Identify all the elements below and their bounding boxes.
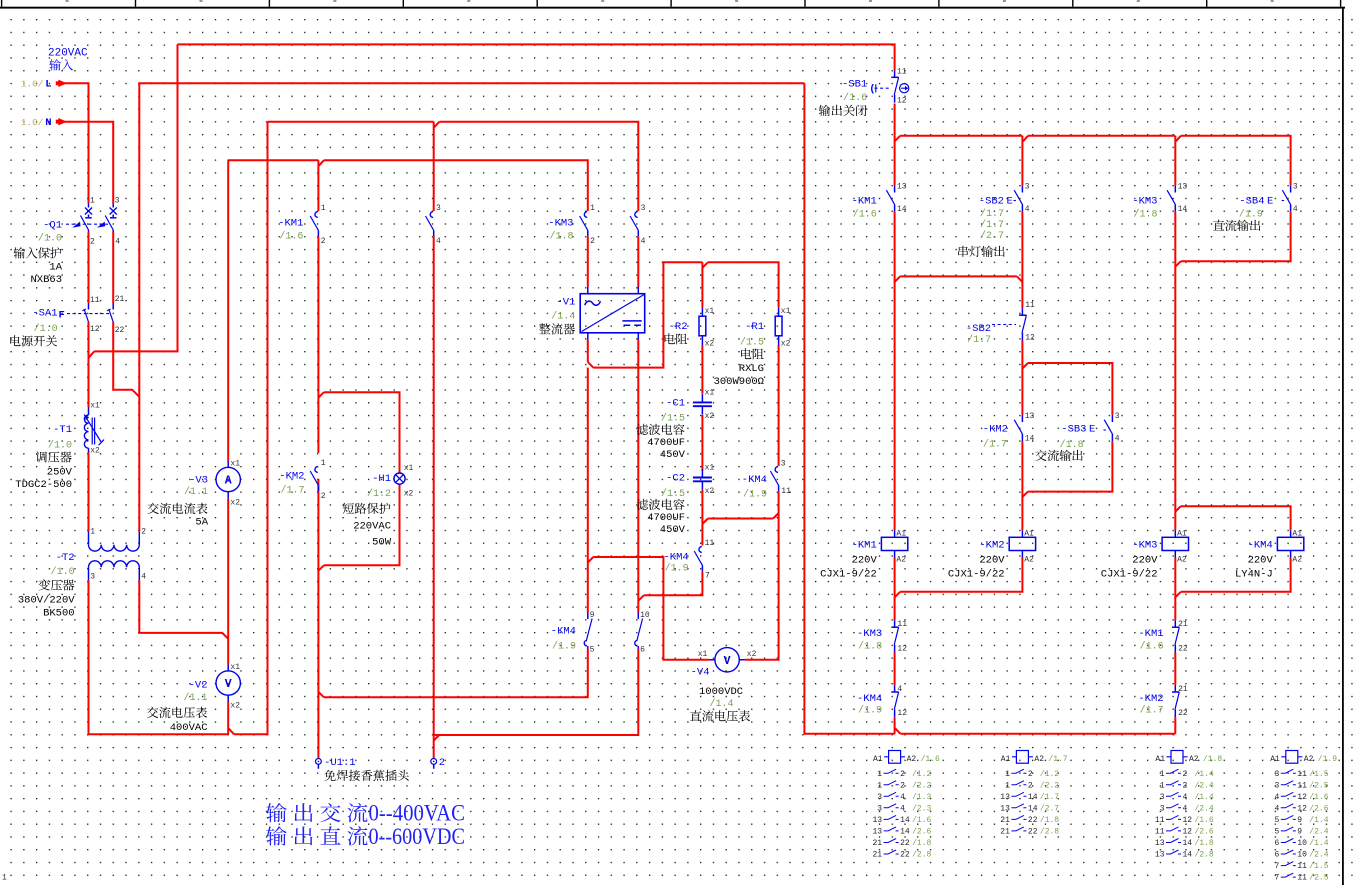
svg-text:4: 4	[641, 237, 646, 246]
junction chamfer V2-x2 at bottom rail	[229, 729, 234, 735]
svg-text:3: 3	[1274, 770, 1279, 779]
svg-text:2: 2	[1183, 781, 1188, 790]
svg-text:-V3: -V3	[189, 475, 208, 487]
svg-text:-C2: -C2	[666, 473, 685, 485]
svg-text:50W: 50W	[372, 537, 392, 549]
junction chamfer rail y557	[588, 557, 594, 563]
mirror table KM4	[1286, 751, 1298, 764]
capacitor C2	[701, 469, 703, 490]
svg-text:/1.7: /1.7	[967, 334, 991, 346]
contact SB4 3-4	[1290, 185, 1292, 192]
svg-text:12: 12	[897, 709, 907, 718]
relay KM4 contact 9-5	[587, 613, 589, 620]
switch SA1 actuator dashes	[67, 313, 109, 315]
svg-text:21: 21	[1000, 828, 1010, 837]
wire R2 feed	[701, 262, 703, 307]
svg-text:1: 1	[321, 459, 326, 468]
svg-text:A1: A1	[1177, 529, 1187, 538]
wire lamp loop top	[324, 392, 400, 473]
wire R1-x2 to KM4-3	[778, 346, 780, 467]
svg-text:4: 4	[141, 573, 146, 582]
breaker Q1 pole 1-2	[88, 204, 90, 208]
wire rail y160 left of KM1-1 tap	[228, 159, 318, 161]
svg-text:13: 13	[1025, 412, 1035, 421]
svg-text:/1.6: /1.6	[1140, 640, 1164, 652]
mirror table KM3	[1171, 751, 1183, 764]
svg-text:14: 14	[1028, 793, 1038, 802]
svg-text:1.0/: 1.0/	[21, 79, 44, 90]
svg-text:/1.1: /1.1	[184, 486, 208, 498]
wire KM3 coil A2 down	[1174, 558, 1176, 621]
svg-text:/1.8: /1.8	[858, 640, 882, 652]
svg-text:/2.5: /2.5	[1309, 781, 1328, 790]
svg-text:13: 13	[872, 828, 882, 837]
coil KM3	[1174, 530, 1176, 557]
svg-text:/1.1: /1.1	[183, 692, 207, 704]
wire DC+ to KM4-9	[587, 368, 589, 613]
svg-text:/2.6: /2.6	[1195, 828, 1214, 837]
wire KM3-2 to V1-AC1	[587, 236, 589, 286]
svg-text:/2.4: /2.4	[1309, 851, 1328, 860]
svg-text:/1.8: /1.8	[549, 231, 573, 243]
svg-text:13: 13	[1178, 182, 1188, 191]
svg-text:x1: x1	[781, 307, 791, 316]
svg-text:250V: 250V	[47, 467, 73, 479]
wire V2-x2 drop	[227, 702, 229, 735]
transformer T2 secondary winding	[88, 567, 90, 580]
svg-text:0--600VDC: 0--600VDC	[369, 824, 466, 849]
svg-text:/1.4: /1.4	[1195, 793, 1214, 802]
junction chamfer NC chain at bottom rail	[895, 728, 900, 734]
wire rail y506 to KM4 coil	[1181, 506, 1291, 530]
svg-text:-KM2: -KM2	[983, 424, 1008, 436]
svg-text:/1.5: /1.5	[661, 488, 685, 500]
wire KM3NC-12 to KM4NC-4	[894, 653, 896, 686]
svg-text:-KM2: -KM2	[279, 471, 304, 483]
svg-text:220V: 220V	[1132, 555, 1158, 567]
wire ctrl rail y135 seg2	[1028, 135, 1175, 137]
svg-text:4: 4	[1183, 804, 1188, 813]
junction chamfer A2 rail KM3	[1175, 592, 1181, 598]
wire rail y557 to V4-x1	[593, 557, 709, 660]
svg-text:/1.7: /1.7	[1140, 704, 1164, 716]
contactor KM2 main pole 1-2	[315, 467, 318, 473]
svg-text:/1.9: /1.9	[1318, 755, 1337, 764]
wire rail y160 to KM3-1	[324, 160, 588, 211]
wire KM1NC-22 to KM2NC-21	[1174, 653, 1176, 686]
svg-text:3: 3	[877, 804, 882, 813]
svg-text:A2: A2	[1189, 755, 1199, 764]
svg-text:-KM2: -KM2	[979, 540, 1004, 552]
svg-text:3: 3	[1025, 182, 1030, 191]
wire DC- rail y697 to KM4-5	[324, 649, 588, 698]
svg-text:A1: A1	[1292, 529, 1302, 538]
voltmeter V4	[709, 659, 745, 661]
svg-text:3: 3	[877, 793, 882, 802]
svg-text:x2: x2	[705, 487, 715, 496]
junction chamfer KM1-1 tap	[319, 160, 324, 166]
svg-text:NXB63: NXB63	[30, 274, 62, 286]
wire R2-x2 to C1-x1	[701, 346, 703, 394]
wire KM4-11 to V4-x2	[745, 491, 779, 660]
svg-text:/1.8: /1.8	[1060, 439, 1084, 451]
label banana plug	[324, 770, 335, 781]
svg-text:11: 11	[705, 539, 715, 548]
svg-text:-R2: -R2	[669, 321, 688, 333]
capacitor C1	[701, 394, 703, 415]
svg-text:1: 1	[2, 874, 7, 883]
svg-text:11: 11	[90, 296, 100, 305]
svg-text:/1.9: /1.9	[665, 563, 689, 575]
svg-text:x2: x2	[781, 339, 791, 348]
svg-text:E: E	[1267, 196, 1273, 208]
wire T2-4 to V2-x1 jog	[139, 580, 228, 639]
svg-text:/1.2: /1.2	[1040, 770, 1059, 779]
svg-text:A2: A2	[896, 555, 906, 564]
svg-text:2: 2	[900, 781, 905, 790]
junction chamfer rail y595	[638, 595, 644, 601]
svg-text:2: 2	[1028, 770, 1033, 779]
junction chamfer KM4 coil rail	[1175, 506, 1181, 512]
svg-text:22: 22	[1178, 709, 1188, 718]
svg-text:/1.8: /1.8	[1203, 755, 1222, 764]
svg-text:-C1: -C1	[666, 398, 685, 410]
svg-text:3: 3	[1115, 412, 1120, 421]
wire rail y595 to KM4-7 col	[644, 571, 703, 595]
junction chamfer ctrl rail at SB2 col	[1023, 136, 1028, 142]
contact KM1 aux 13-14	[894, 185, 896, 192]
transformer T2 primary winding	[88, 531, 90, 545]
svg-text:x1: x1	[230, 459, 240, 468]
svg-text:4700UF: 4700UF	[647, 437, 685, 449]
wire lamp loop bottom	[324, 484, 400, 565]
wire SB3 loop top	[1028, 363, 1113, 415]
svg-text:2: 2	[1183, 770, 1188, 779]
svg-text:5: 5	[590, 646, 595, 655]
svg-text:x1: x1	[698, 650, 708, 659]
svg-text:-SB2: -SB2	[966, 323, 991, 335]
svg-text:/1.4: /1.4	[551, 311, 575, 323]
svg-text:A1: A1	[873, 755, 883, 764]
svg-text:-KM2: -KM2	[1138, 693, 1163, 705]
mirror table KM1	[889, 751, 901, 764]
svg-text:/2.3: /2.3	[912, 804, 931, 813]
svg-text:9: 9	[1297, 828, 1302, 837]
lamp H1	[399, 473, 401, 484]
wire KM1-2 down to lamp loop	[317, 236, 319, 392]
junction chamfer ctrl rail at KM3 col	[1176, 136, 1181, 142]
svg-text:14: 14	[1178, 205, 1188, 214]
svg-text:6: 6	[640, 646, 645, 655]
svg-text:4: 4	[897, 685, 902, 694]
svg-text:7: 7	[705, 572, 710, 581]
svg-text:E: E	[1007, 196, 1013, 208]
svg-text:/1.0: /1.0	[51, 566, 75, 578]
svg-text:-KM1: -KM1	[278, 218, 303, 230]
junction chamfer hold rail left	[895, 276, 901, 282]
svg-text:A2: A2	[907, 755, 917, 764]
svg-text:220V: 220V	[852, 555, 878, 567]
svg-text:/2.8: /2.8	[1040, 828, 1059, 837]
wire N ctrl riser x804	[804, 83, 894, 734]
svg-text:14: 14	[900, 816, 910, 825]
svg-text:N: N	[45, 117, 51, 129]
svg-text:/1.6: /1.6	[1309, 793, 1328, 802]
svg-text:12: 12	[90, 325, 100, 334]
svg-text:CJX1-9/22: CJX1-9/22	[1101, 569, 1158, 581]
svg-text:2: 2	[321, 237, 326, 246]
svg-text:/1.7: /1.7	[980, 219, 1004, 231]
svg-text:/1.3: /1.3	[912, 793, 931, 802]
breaker Q1 linkage dashes	[66, 223, 108, 225]
svg-text:/1.6: /1.6	[912, 816, 931, 825]
sheet right border line	[1342, 7, 1344, 885]
svg-text:-SB2: -SB2	[979, 196, 1004, 208]
svg-text:/2.4: /2.4	[1195, 804, 1214, 813]
svg-text:22: 22	[1028, 828, 1038, 837]
junction chamfer lamp loop top	[318, 392, 324, 398]
svg-text:A1: A1	[1270, 755, 1280, 764]
svg-text:11: 11	[1155, 828, 1165, 837]
switch SA1 pole 11-12	[88, 303, 90, 310]
svg-text:/1.5: /1.5	[740, 337, 764, 349]
svg-text:22: 22	[1028, 816, 1038, 825]
svg-text:1: 1	[90, 527, 95, 536]
wire KM2aux-14 to coil KM2	[1021, 441, 1023, 530]
svg-text:1: 1	[877, 770, 882, 779]
contact KM2 aux 13-14	[1021, 415, 1023, 422]
svg-text:x1: x1	[705, 464, 715, 473]
mirror table KM2	[1016, 751, 1028, 764]
coil KM4	[1290, 530, 1292, 557]
contact KM1 NC 21-22	[1174, 620, 1176, 626]
svg-text:11: 11	[897, 620, 907, 629]
junction chamfer mid-cap rail left	[702, 519, 708, 525]
svg-text:4: 4	[1274, 793, 1279, 802]
svg-text:1: 1	[90, 196, 95, 205]
svg-text:A1: A1	[1001, 755, 1011, 764]
wire A2 rail KM3-KM4	[1181, 558, 1291, 592]
sheet column ruler ticks	[1, 0, 2, 7]
svg-text:220V: 220V	[1248, 555, 1274, 567]
svg-text:3: 3	[641, 204, 646, 213]
svg-text:/2.7: /2.7	[980, 230, 1004, 242]
svg-text:13: 13	[872, 816, 882, 825]
svg-text:14: 14	[1028, 804, 1038, 813]
svg-text:13: 13	[1155, 839, 1165, 848]
svg-text:450V: 450V	[660, 449, 686, 461]
svg-text:-U1:1: -U1:1	[324, 757, 356, 769]
wire C1-x2 to C2-x1	[701, 415, 703, 471]
svg-text:/1.0: /1.0	[34, 323, 58, 335]
svg-text:BK500: BK500	[43, 608, 75, 620]
svg-text:/1.0: /1.0	[48, 440, 72, 452]
svg-text:-KM4: -KM4	[742, 474, 767, 486]
svg-text:2: 2	[90, 238, 95, 247]
svg-text:1A: 1A	[49, 262, 62, 274]
relay KM4 contact 10-6	[637, 613, 639, 620]
wire KM1-4 down	[433, 236, 435, 735]
source arrow L	[58, 80, 67, 87]
svg-text:/1.5: /1.5	[1309, 770, 1328, 779]
source arrow N	[58, 118, 67, 125]
svg-text:x2: x2	[230, 702, 240, 711]
wire ctrl rail y135 seg1	[900, 135, 1022, 137]
sheet top border line	[0, 7, 1345, 9]
wire C2-x2 to KM4-11	[701, 490, 703, 546]
svg-text:2: 2	[141, 527, 146, 536]
junction chamfer at L riser y351	[89, 351, 95, 357]
svg-text:/2.7: /2.7	[1040, 804, 1059, 813]
wire rail y367 to R riser	[593, 262, 702, 367]
svg-text:2: 2	[1028, 781, 1033, 790]
svg-text:11: 11	[1297, 770, 1307, 779]
terminal U1:2	[433, 758, 435, 768]
junction chamfer KM1-3 tap	[434, 122, 439, 128]
svg-text:3: 3	[1160, 804, 1165, 813]
svg-text:12: 12	[1297, 793, 1307, 802]
junction chamfer V1-DC1 to R rail	[588, 362, 594, 368]
svg-text:-KM1: -KM1	[1138, 628, 1163, 640]
svg-text:x1: x1	[705, 307, 715, 316]
svg-text:220VAC: 220VAC	[353, 521, 391, 533]
svg-text:/1.4: /1.4	[710, 698, 734, 710]
svg-text:V: V	[724, 655, 731, 668]
svg-text:3: 3	[90, 573, 95, 582]
svg-text:21: 21	[872, 851, 882, 860]
relay KM4 contact 3-11	[775, 467, 778, 473]
wire KM2NC-22 to bottom rail	[1174, 717, 1176, 734]
terminal U1:1	[317, 758, 319, 768]
svg-text:x1: x1	[705, 388, 715, 397]
wire KM3-14 down to coil KM3	[1174, 212, 1176, 531]
svg-text:21: 21	[1178, 685, 1188, 694]
wire KM1-14 to coil KM1	[894, 212, 896, 531]
svg-text:/1.8: /1.8	[1195, 839, 1214, 848]
svg-text:/1.8: /1.8	[1133, 209, 1157, 221]
svg-text:12: 12	[1297, 804, 1307, 813]
svg-text:A1: A1	[1155, 755, 1165, 764]
contact KM2 NC 21-22	[1174, 685, 1176, 691]
svg-text:(: (	[869, 83, 875, 95]
svg-text:11: 11	[1297, 862, 1307, 871]
svg-text:14: 14	[1183, 851, 1193, 860]
switch SA1 pole 21-22	[112, 303, 114, 310]
svg-text:4: 4	[1115, 435, 1120, 444]
contactor KM1 main pole 1-2	[315, 212, 318, 218]
svg-text:0--400VAC: 0--400VAC	[369, 801, 466, 826]
svg-text:2: 2	[900, 770, 905, 779]
wire SB4 hold rail y261	[1181, 212, 1291, 262]
svg-text:/1.9: /1.9	[552, 641, 576, 653]
contactor KM3 main pole 3-4	[635, 212, 638, 218]
svg-text:14: 14	[1025, 435, 1035, 444]
wire Q1-4 to SA1-21	[112, 232, 114, 303]
voltmeter V2	[227, 664, 229, 701]
svg-text:/1.9: /1.9	[858, 704, 882, 716]
svg-text:4700UF: 4700UF	[647, 512, 685, 524]
note output DC range	[266, 826, 287, 845]
coil KM1	[894, 530, 896, 557]
svg-text:/2.5: /2.5	[1309, 874, 1328, 883]
svg-text:14: 14	[1183, 839, 1193, 848]
svg-text:CJX1-9/22: CJX1-9/22	[820, 569, 877, 581]
svg-text:2: 2	[439, 757, 445, 769]
contact KM4 NC 4-12	[894, 685, 896, 691]
wire SA1-22 jog to N rail	[113, 322, 139, 397]
svg-text:1: 1	[877, 781, 882, 790]
svg-text:-KM4: -KM4	[551, 626, 576, 638]
svg-text:/1.0: /1.0	[38, 233, 62, 245]
svg-text:-R1: -R1	[745, 321, 764, 333]
svg-text:-V2: -V2	[189, 680, 208, 692]
note output AC range	[266, 803, 287, 822]
wire SB2-4 to SB2-11	[1021, 212, 1023, 309]
svg-text:3: 3	[781, 459, 786, 468]
svg-text:10: 10	[1297, 851, 1307, 860]
svg-text:/1.2: /1.2	[367, 488, 391, 500]
svg-text:6: 6	[1274, 839, 1279, 848]
svg-text:A2: A2	[1034, 755, 1044, 764]
svg-text:/1.6: /1.6	[843, 92, 867, 104]
svg-text:9: 9	[590, 611, 595, 620]
svg-text:A2: A2	[1024, 555, 1034, 564]
svg-text:11: 11	[1297, 781, 1307, 790]
junction chamfer ctrl rail at KM1 col	[895, 136, 901, 142]
svg-text:22: 22	[900, 851, 910, 860]
svg-text:11: 11	[897, 68, 907, 77]
svg-text:1: 1	[1160, 770, 1165, 779]
junction chamfer lamp loop bottom	[318, 565, 324, 571]
svg-text:-KM4: -KM4	[663, 552, 688, 564]
wire V1-DC2 down to KM4-10	[637, 339, 639, 612]
resistor R1	[778, 307, 780, 345]
wire hold rail y276	[900, 275, 1017, 277]
junction chamfer R2 tap	[702, 262, 708, 268]
svg-text:7: 7	[1274, 862, 1279, 871]
svg-text:-KM4: -KM4	[1248, 540, 1273, 552]
svg-text:11: 11	[1025, 301, 1035, 310]
svg-text:/2.2: /2.2	[1040, 781, 1059, 790]
rectifier V1 box	[588, 287, 639, 340]
svg-text:-T1: -T1	[53, 424, 72, 436]
svg-text:1: 1	[321, 204, 326, 213]
junction chamfer SB4 rail	[1175, 261, 1181, 267]
svg-text:1: 1	[1005, 770, 1010, 779]
svg-text:7: 7	[1274, 874, 1279, 883]
svg-text:4: 4	[900, 804, 905, 813]
junction chamfer SB3 loop bottom	[1022, 492, 1028, 498]
svg-text:-V4: -V4	[691, 667, 710, 679]
svg-text:/2.2: /2.2	[912, 781, 931, 790]
svg-text:-H1: -H1	[372, 473, 391, 485]
wire A2 rail KM1-KM2	[900, 558, 1022, 592]
svg-text:-SB1: -SB1	[842, 79, 867, 91]
junction chamfer terminal 2 tap	[434, 735, 440, 741]
svg-text:4: 4	[900, 793, 905, 802]
svg-text:-Q1: -Q1	[43, 220, 62, 232]
wire N feed	[59, 122, 113, 204]
svg-text:/1.6: /1.6	[921, 755, 940, 764]
svg-text:12: 12	[1183, 816, 1193, 825]
svg-text:-KM3: -KM3	[857, 628, 882, 640]
svg-text:1: 1	[1005, 781, 1010, 790]
contact SB3 3-4	[1111, 415, 1113, 422]
autotransformer T1	[88, 407, 90, 415]
svg-text:1000VDC: 1000VDC	[699, 686, 743, 698]
wire T1-x2 to T2-1	[88, 452, 90, 531]
svg-text:/1.7: /1.7	[1040, 793, 1059, 802]
